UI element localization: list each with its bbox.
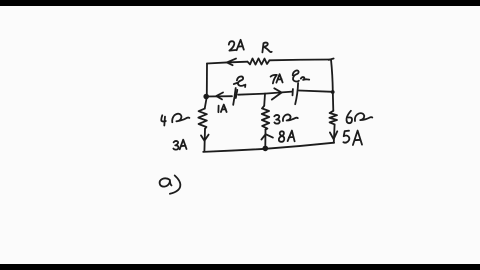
resistor R (top wire zigzag) [248, 58, 270, 64]
node B (junction right mid) [331, 90, 335, 94]
battery E1 long plate [233, 88, 236, 105]
letterbox bar top [0, 0, 480, 6]
node A (junction dot left) [203, 94, 209, 100]
arrow 3A (down arrowhead on left branch) [201, 135, 209, 141]
wire middle: center junction to battery 2 [265, 92, 292, 94]
label 7A [271, 74, 283, 83]
arrow 7A (right-pointing on middle wire) [272, 88, 282, 99]
letterbox bar bottom [0, 264, 480, 270]
battery E1 short plate [236, 90, 238, 98]
label 3A [173, 140, 186, 150]
label a) [160, 176, 181, 194]
label 5A [343, 131, 362, 145]
wire middle branch upper stub [263, 94, 266, 106]
label E2 (script ell 2) [293, 70, 310, 81]
wire left vertical (top corner to node) [206, 64, 208, 96]
label 2A [229, 40, 244, 51]
resistor 6ohm zigzag [329, 111, 337, 125]
wire right vertical (top corner down to mid junction) [331, 60, 333, 92]
label 4ohm [161, 114, 189, 126]
node C (junction dot bottom middle) [263, 146, 269, 152]
wire left branch upper stub [205, 99, 207, 109]
resistor 4ohm zigzag [198, 109, 206, 129]
battery E2 long plate [295, 83, 298, 104]
arrow 2A (left-pointing on top wire) [227, 59, 236, 66]
wire middle: battery 1 to center junction [238, 94, 265, 95]
wire middle branch lower with arrow shaft [264, 130, 266, 147]
wire right branch upper stub [332, 92, 335, 111]
label R [262, 43, 271, 53]
wire middle: battery 2 to right vertical [299, 91, 333, 92]
wire left branch lower with arrow shaft [203, 129, 206, 152]
arrow 1A (left-pointing on middle wire) [216, 93, 223, 100]
wire top [207, 62, 248, 64]
wire bottom horizontal [203, 143, 334, 152]
label 3ohm [274, 114, 298, 123]
arrow 5A (down arrowhead on right branch) [330, 131, 337, 139]
label 1A [218, 105, 226, 113]
label E1 (script ell 1) [234, 76, 246, 87]
label 6ohm [346, 111, 372, 123]
battery E2 short plate [292, 89, 294, 95]
wire corner overshoot tick top right [329, 59, 334, 60]
arrow 8A (up arrowhead on middle branch) [261, 134, 273, 139]
wire middle horizontal: node to battery 1 [206, 95, 232, 97]
resistor 3ohm zigzag [262, 106, 269, 130]
label 8A [279, 131, 295, 142]
wire right branch lower with arrow shaft [333, 124, 336, 142]
